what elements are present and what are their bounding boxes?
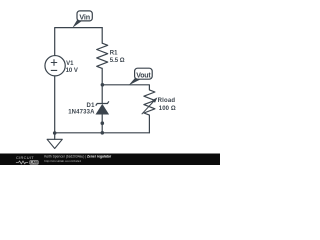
wire left below V1 to bottom bbox=[54, 76, 56, 133]
footer bar bbox=[0, 154, 220, 166]
svg-text:LAB: LAB bbox=[30, 161, 38, 165]
svg-text:5.5 Ω: 5.5 Ω bbox=[110, 58, 125, 64]
svg-text:http://circuitlab.com/c/b2a4: http://circuitlab.com/c/b2a4 bbox=[44, 159, 81, 163]
svg-text:D1: D1 bbox=[87, 103, 96, 109]
wire right below Rload bbox=[148, 115, 150, 133]
svg-text:1N4733A: 1N4733A bbox=[68, 110, 95, 116]
wire middle horizontal Vout net bbox=[102, 85, 149, 90]
node junction dot bottom middle bbox=[101, 131, 105, 135]
svg-text:CIRCUIT: CIRCUIT bbox=[16, 155, 34, 160]
svg-text:Keith Spencer (bsd2034au) | Ze: Keith Spencer (bsd2034au) | Zener regula… bbox=[44, 154, 112, 158]
svg-text:Vin: Vin bbox=[79, 12, 90, 21]
zener diode D1 bbox=[96, 101, 110, 114]
svg-text:R1: R1 bbox=[110, 51, 118, 57]
resistor R1 bbox=[97, 43, 108, 68]
wire middle branch R1 leads bbox=[101, 28, 103, 104]
node label Vin flag bbox=[72, 11, 92, 28]
svg-text:Rload: Rload bbox=[158, 98, 176, 104]
svg-text:Vout: Vout bbox=[136, 72, 151, 79]
wire top horizontal Vin net bbox=[55, 28, 102, 56]
wire ground stub bbox=[54, 133, 56, 140]
svg-text:V1: V1 bbox=[66, 61, 74, 67]
footer CircuitLab logo bbox=[16, 155, 39, 165]
svg-text:10 V: 10 V bbox=[66, 68, 78, 74]
wire bottom horizontal ground net bbox=[55, 132, 150, 134]
svg-text:100 Ω: 100 Ω bbox=[159, 106, 176, 112]
ground symbol bbox=[47, 139, 62, 148]
voltage source V1 bbox=[45, 56, 65, 76]
node junction dot D1 anode bbox=[101, 121, 105, 125]
node junction dot left bottom bbox=[53, 131, 57, 135]
wire D1 anode to bottom bbox=[101, 115, 103, 133]
resistor Rload (variable) bbox=[144, 90, 155, 115]
node junction dot Vout bbox=[101, 83, 105, 87]
Rload wiper arrow bbox=[142, 97, 158, 114]
node label Vout flag bbox=[129, 68, 153, 85]
